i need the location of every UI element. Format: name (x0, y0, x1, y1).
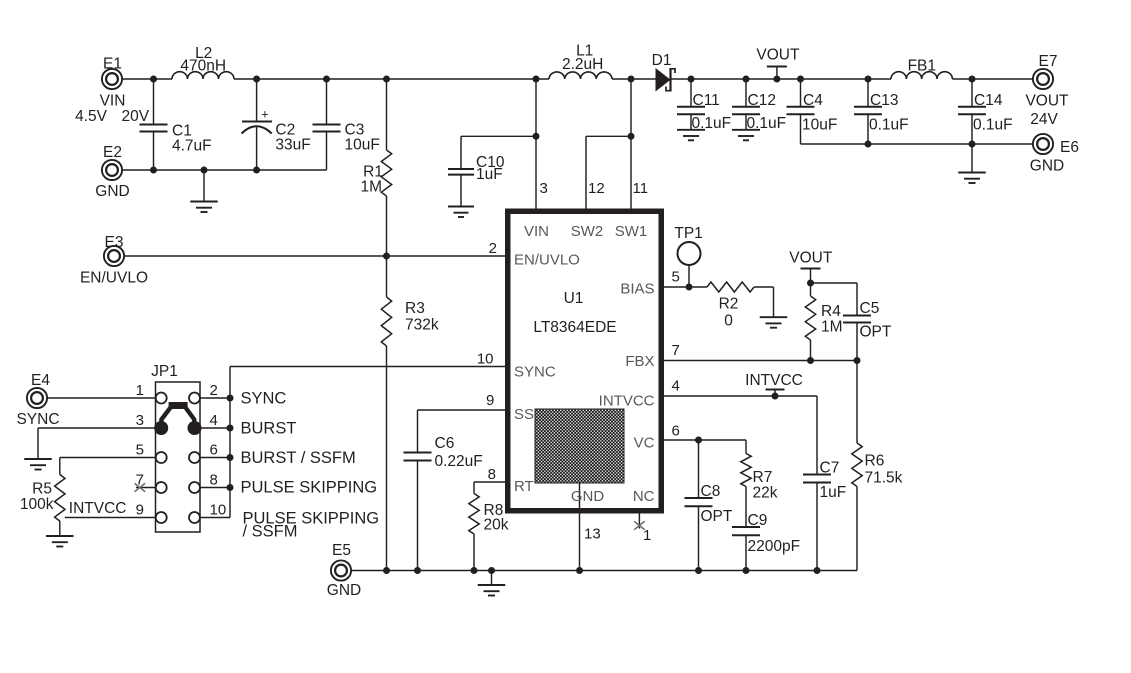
svg-text:BURST: BURST (241, 420, 297, 438)
capacitor C4 10uF (800, 79, 802, 107)
svg-text:R5: R5 (32, 481, 52, 498)
resistor R5 100k (55, 475, 65, 522)
wire EN/UVLO to U1 pin 2 (124, 255, 505, 257)
svg-text:C12: C12 (748, 92, 776, 109)
node R8 ground (471, 567, 478, 574)
ground R5 (46, 535, 74, 537)
svg-text:0: 0 (724, 313, 733, 330)
wire E4 to JP1 pin 1 (47, 397, 155, 399)
U1 NC pin 1 stub (638, 514, 640, 529)
svg-text:10uF: 10uF (802, 117, 837, 134)
svg-text:PULSE SKIPPING: PULSE SKIPPING (241, 479, 378, 497)
node C9 ground (743, 567, 750, 574)
node C6 ground (414, 567, 421, 574)
wire U1 SS pin 9 (418, 409, 506, 411)
capacitor C7 1uF (816, 396, 818, 475)
svg-text:10: 10 (477, 351, 494, 368)
svg-text:E3: E3 (105, 234, 124, 251)
svg-text:SYNC: SYNC (241, 390, 287, 408)
inductor L2 470nH (172, 72, 234, 79)
svg-text:R4: R4 (821, 303, 841, 320)
terminal E2 (102, 160, 122, 180)
terminal E3 (104, 246, 124, 266)
node R1 top (383, 76, 390, 83)
node C2 top (253, 76, 260, 83)
svg-text:EN/UVLO: EN/UVLO (514, 252, 580, 269)
capacitor C9 2200pF (745, 487, 747, 528)
node C4 top (797, 76, 804, 83)
svg-text:JP1: JP1 (151, 363, 178, 380)
svg-text:INTVCC: INTVCC (69, 500, 127, 517)
wire U1 INTVCC pin 4 (664, 395, 817, 397)
wire SYNC bus vertical (229, 367, 231, 518)
svg-text:2.2uH: 2.2uH (562, 56, 603, 73)
wire top rail E1 to L2 (122, 78, 172, 80)
wire top rail L1 to D1 (612, 78, 656, 80)
svg-text:C9: C9 (748, 512, 768, 529)
node VIN pin top (533, 76, 540, 83)
svg-text:E1: E1 (103, 56, 122, 73)
capacitor C11 0.1uF (690, 79, 692, 107)
svg-text:OPT: OPT (860, 324, 892, 341)
svg-text:0.1uF: 0.1uF (973, 117, 1013, 134)
svg-text:FB1: FB1 (908, 58, 936, 75)
svg-text:2: 2 (489, 240, 497, 257)
wire output ground rail (801, 143, 1033, 145)
ground main rail (491, 571, 493, 586)
net VOUT label mid (801, 268, 821, 270)
node C8 ground (695, 567, 702, 574)
node C1 top (150, 76, 157, 83)
node JP1 pin 2 bus (227, 395, 234, 402)
wire top rail FB1 to E7 (952, 78, 1032, 80)
svg-text:E6: E6 (1060, 139, 1079, 156)
svg-text:1M: 1M (360, 179, 382, 196)
svg-text:/ SSFM: / SSFM (243, 523, 298, 541)
svg-text:E2: E2 (103, 144, 122, 161)
resistor R4 1M (810, 283, 812, 296)
node R4 bottom (807, 357, 814, 364)
svg-text:33uF: 33uF (275, 137, 310, 154)
svg-text:R2: R2 (719, 296, 739, 313)
node C2 bottom (253, 167, 260, 174)
U1 pad GND stem (579, 483, 581, 510)
wire U1 SW2 pin 12 column (585, 136, 587, 208)
capacitor C10 1uF (461, 135, 536, 137)
svg-text:9: 9 (136, 502, 144, 519)
node C14 top (969, 76, 976, 83)
wire input bottom rail (122, 169, 326, 171)
svg-text:NC: NC (633, 488, 655, 505)
svg-text:10: 10 (210, 502, 227, 519)
svg-text:GND: GND (1030, 158, 1064, 175)
ground C11 (677, 129, 705, 131)
svg-text:D1: D1 (652, 52, 672, 69)
node ground symbol tap (488, 567, 495, 574)
svg-text:10uF: 10uF (345, 137, 380, 154)
resistor R2 0 (707, 282, 754, 292)
ferrite bead FB1 (891, 72, 952, 79)
svg-text:1: 1 (643, 527, 651, 544)
op-amp U1 LT8364EDE body (508, 211, 662, 511)
terminal E7 (1033, 69, 1053, 89)
inductor L1 2.2uH (549, 72, 612, 79)
svg-text:VOUT: VOUT (756, 47, 800, 64)
terminal E5 (331, 560, 351, 580)
svg-text:C8: C8 (701, 483, 721, 500)
ground R2 (773, 287, 775, 317)
wire JP1 pin 9 (65, 517, 156, 519)
svg-text:SS: SS (514, 406, 534, 423)
resistor R6 71.5k (856, 361, 858, 444)
svg-text:2: 2 (210, 382, 218, 399)
ground input rail (203, 170, 205, 202)
svg-text:C5: C5 (860, 300, 880, 317)
svg-text:470nH: 470nH (180, 58, 226, 75)
svg-text:3: 3 (540, 180, 548, 197)
resistor R1 1M (386, 79, 388, 150)
terminal E6 (1033, 134, 1053, 154)
svg-text:5: 5 (136, 442, 144, 459)
svg-text:8: 8 (210, 472, 218, 489)
svg-text:0.22uF: 0.22uF (435, 453, 483, 470)
svg-text:20k: 20k (484, 517, 509, 534)
ground C10 (448, 206, 474, 208)
svg-text:FBX: FBX (625, 353, 654, 370)
wire U1 GND pin 13 (579, 514, 581, 571)
svg-text:VIN: VIN (100, 93, 126, 110)
svg-text:C6: C6 (435, 435, 455, 452)
resistor R8 20k (473, 482, 475, 494)
terminal E4 (27, 388, 47, 408)
node SW junction (628, 133, 635, 140)
U1 exposed pad (535, 409, 624, 483)
svg-text:U1: U1 (564, 290, 584, 307)
node C8 tap (695, 437, 702, 444)
svg-text:E4: E4 (31, 372, 50, 389)
svg-text:C14: C14 (974, 92, 1003, 109)
node U1 GND pin ground (576, 567, 583, 574)
svg-text:VIN: VIN (524, 223, 549, 240)
node C7 ground (814, 567, 821, 574)
svg-text:8: 8 (488, 466, 496, 483)
svg-text:BURST / SSFM: BURST / SSFM (241, 449, 356, 467)
node C14 bottom (969, 141, 976, 148)
svg-text:13: 13 (584, 526, 601, 543)
svg-text:12: 12 (588, 180, 605, 197)
node JP1 pin 4 bus (227, 425, 234, 432)
svg-text:SYNC: SYNC (514, 364, 556, 381)
svg-text:6: 6 (672, 423, 680, 440)
node C3 top (323, 76, 330, 83)
node C13 bottom (865, 141, 872, 148)
wire U1 SW1 pin 11 column (630, 79, 632, 209)
wire top rail D1 to FB1 (671, 78, 892, 80)
wire U1 VIN pin 3 column (535, 79, 537, 209)
test point TP1 (678, 242, 701, 265)
wire main ground rail (351, 570, 857, 572)
capacitor C14 0.1uF (971, 79, 973, 107)
svg-text:4: 4 (210, 412, 218, 429)
wire U1 SYNC pin 10 (230, 366, 505, 368)
U1 pin names (514, 223, 655, 505)
node input ground (201, 167, 208, 174)
capacitor C1 4.7uF (153, 79, 155, 125)
svg-text:GND: GND (95, 183, 129, 200)
svg-text:EN/UVLO: EN/UVLO (80, 270, 148, 287)
net INTVCC label (766, 389, 785, 391)
svg-text:VOUT: VOUT (789, 250, 833, 267)
wire top rail L2 to L1 (234, 78, 549, 80)
svg-text:24V: 24V (1030, 111, 1058, 128)
svg-text:SW2: SW2 (571, 223, 604, 240)
svg-text:GND: GND (571, 488, 605, 505)
JP1 pin 7 no-connect stub (136, 487, 156, 489)
svg-text:LT8364EDE: LT8364EDE (533, 319, 616, 336)
node TP1 junction (686, 284, 693, 291)
resistor R7 22k (745, 440, 747, 454)
svg-text:4.5V: 4.5V (75, 108, 108, 125)
JP1 left pins (156, 393, 167, 524)
wire JP1 pin 3 to ground (38, 427, 156, 429)
ground JP1 pin 3 (24, 458, 52, 460)
svg-text:R6: R6 (865, 453, 885, 470)
node VOUT top rail (773, 76, 780, 83)
capacitor C13 0.1uF (867, 79, 869, 107)
svg-text:71.5k: 71.5k (865, 470, 903, 487)
wire U1 VC pin 6 (664, 439, 746, 441)
node D1 cathode (688, 76, 695, 83)
node C10 tap (533, 133, 540, 140)
connector JP1 body (156, 382, 201, 532)
wire U1 RT pin 8 (474, 481, 505, 483)
svg-text:7: 7 (672, 342, 680, 359)
svg-text:9: 9 (486, 392, 494, 409)
svg-text:E5: E5 (332, 542, 351, 559)
svg-text:1: 1 (136, 382, 144, 399)
svg-text:4: 4 (672, 378, 680, 395)
svg-text:VOUT: VOUT (1025, 93, 1069, 110)
svg-text:5: 5 (672, 269, 680, 286)
svg-text:E7: E7 (1039, 53, 1058, 70)
svg-text:0.1uF: 0.1uF (869, 117, 909, 134)
svg-text:INTVCC: INTVCC (745, 372, 803, 389)
net VOUT label top (767, 66, 787, 68)
wire U1 FBX pin 7 (664, 360, 857, 362)
diode D1 Schottky (656, 68, 671, 92)
svg-text:RT: RT (514, 478, 534, 495)
wire JP1 pin 5 to R5 (60, 457, 156, 459)
node SW1 top (628, 76, 635, 83)
svg-text:1uF: 1uF (820, 484, 847, 501)
svg-text:TP1: TP1 (674, 225, 702, 242)
node C13 top (865, 76, 872, 83)
node JP1 pin 6 bus (227, 454, 234, 461)
node VOUT R4 C5 junction (807, 280, 814, 287)
capacitor C3 10uF (326, 79, 328, 125)
svg-text:1M: 1M (821, 319, 843, 336)
svg-text:R3: R3 (405, 300, 425, 317)
svg-text:R7: R7 (753, 469, 773, 486)
wire U1 BIAS pin 5 (664, 286, 707, 288)
ground output rail (971, 144, 973, 173)
svg-text:BIAS: BIAS (620, 281, 654, 298)
svg-text:20V: 20V (122, 108, 150, 125)
svg-text:VC: VC (634, 435, 655, 452)
svg-text:+: + (261, 107, 269, 122)
svg-text:OPT: OPT (701, 508, 733, 525)
node EN/UVLO junction R1 R3 (383, 253, 390, 260)
capacitor C8 OPT (698, 440, 700, 498)
JP1 pin numbers (136, 382, 227, 519)
capacitor C5 OPT (811, 282, 858, 284)
svg-text:SYNC: SYNC (16, 411, 59, 428)
JP1 shunt pins 3-4 (169, 402, 188, 409)
terminal E1 (102, 69, 122, 89)
svg-text:2200pF: 2200pF (748, 538, 801, 555)
svg-text:C13: C13 (870, 92, 898, 109)
JP1 right stubs (200, 398, 230, 518)
node C12 top (743, 76, 750, 83)
ground C12 (732, 129, 760, 131)
node C1 bottom (150, 167, 157, 174)
svg-text:732k: 732k (405, 317, 439, 334)
svg-text:6: 6 (210, 442, 218, 459)
svg-text:INTVCC: INTVCC (599, 393, 655, 410)
svg-text:100k: 100k (20, 496, 54, 513)
svg-text:C11: C11 (693, 92, 720, 109)
node R3 ground (383, 567, 390, 574)
svg-text:1uF: 1uF (476, 166, 503, 183)
capacitor C2 33uF polarized (256, 79, 258, 122)
capacitor C6 0.22uF (417, 410, 419, 453)
wire C3 bottom riser (326, 132, 328, 171)
svg-text:GND: GND (327, 582, 361, 599)
node C5 R6 junction (854, 357, 861, 364)
svg-text:3: 3 (136, 412, 144, 429)
JP1 right pins (189, 393, 200, 524)
node INTVCC junction (772, 393, 779, 400)
svg-text:C7: C7 (820, 460, 840, 477)
svg-text:22k: 22k (753, 485, 778, 502)
svg-text:C4: C4 (803, 92, 823, 109)
capacitor C12 0.1uF (745, 79, 747, 107)
resistor R3 732k (386, 256, 388, 297)
node JP1 pin 8 bus (227, 484, 234, 491)
svg-text:SW1: SW1 (615, 223, 648, 240)
svg-text:11: 11 (633, 180, 649, 197)
svg-text:4.7uF: 4.7uF (172, 138, 212, 155)
